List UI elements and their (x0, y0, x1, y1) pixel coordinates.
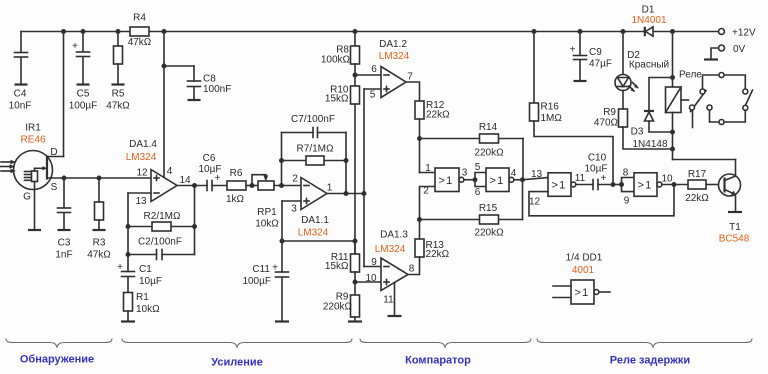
svg-text:R15: R15 (479, 203, 498, 214)
svg-text:13: 13 (531, 169, 543, 180)
svg-text:C4: C4 (14, 89, 27, 100)
svg-text:R1: R1 (136, 292, 149, 303)
svg-text:R3: R3 (93, 238, 106, 249)
svg-text:100nF: 100nF (203, 84, 231, 95)
svg-text:1: 1 (327, 183, 333, 194)
svg-text:R2/1MΩ: R2/1MΩ (144, 211, 181, 222)
svg-text:LM324: LM324 (126, 152, 157, 163)
svg-text:DA1.3: DA1.3 (380, 230, 408, 241)
svg-text:R14: R14 (479, 122, 498, 133)
svg-text:RE46: RE46 (20, 135, 45, 146)
svg-text:>1: >1 (575, 287, 590, 299)
svg-text:+12V: +12V (732, 28, 756, 39)
svg-text:C7/100nF: C7/100nF (291, 114, 335, 125)
svg-text:2: 2 (423, 186, 429, 197)
svg-text:Усиление: Усиление (211, 357, 263, 369)
svg-text:>1: >1 (638, 180, 653, 192)
svg-text:C8: C8 (203, 74, 216, 85)
svg-text:10nF: 10nF (9, 101, 32, 112)
svg-text:R7/1MΩ: R7/1MΩ (297, 144, 334, 155)
svg-text:13: 13 (135, 196, 147, 207)
svg-text:11: 11 (383, 295, 394, 306)
svg-text:9: 9 (624, 196, 630, 207)
svg-text:8: 8 (409, 264, 415, 275)
svg-text:12: 12 (136, 168, 148, 179)
svg-text:C2/100nF: C2/100nF (138, 237, 182, 248)
svg-text:>1: >1 (490, 175, 505, 187)
svg-text:DA1.2: DA1.2 (379, 39, 407, 50)
svg-text:S: S (51, 182, 58, 193)
svg-text:14: 14 (179, 175, 191, 186)
svg-text:220kΩ: 220kΩ (474, 148, 504, 159)
svg-text:100kΩ: 100kΩ (321, 55, 351, 66)
svg-text:C5: C5 (77, 89, 90, 100)
svg-text:3: 3 (462, 168, 468, 179)
svg-text:1/4 DD1: 1/4 DD1 (566, 253, 603, 264)
svg-text:47µF: 47µF (589, 59, 612, 70)
svg-text:10µF: 10µF (199, 164, 222, 175)
svg-text:8: 8 (623, 168, 629, 179)
svg-text:6: 6 (475, 187, 481, 198)
svg-text:R6: R6 (230, 168, 243, 179)
svg-text:220kΩ: 220kΩ (323, 302, 353, 313)
svg-text:R5: R5 (112, 89, 125, 100)
svg-text:Обнаружение: Обнаружение (20, 354, 94, 366)
svg-text:5: 5 (475, 162, 481, 173)
svg-text:22kΩ: 22kΩ (426, 249, 450, 260)
svg-text:C6: C6 (203, 153, 216, 164)
svg-text:C10: C10 (588, 153, 607, 164)
svg-text:R16: R16 (541, 102, 560, 113)
svg-text:D1: D1 (642, 5, 655, 16)
svg-text:10: 10 (661, 174, 673, 185)
svg-text:IR1: IR1 (25, 123, 41, 134)
svg-text:LM324: LM324 (298, 228, 329, 239)
svg-text:2: 2 (292, 174, 298, 185)
svg-text:C9: C9 (589, 47, 602, 58)
svg-text:10: 10 (365, 273, 377, 284)
svg-text:R4: R4 (133, 13, 146, 24)
svg-text:10µF: 10µF (139, 276, 162, 287)
svg-text:LM324: LM324 (375, 244, 406, 255)
svg-text:LM324: LM324 (379, 51, 410, 62)
svg-text:>1: >1 (439, 175, 454, 187)
svg-text:22kΩ: 22kΩ (685, 193, 709, 204)
svg-text:470Ω: 470Ω (594, 118, 619, 129)
svg-text:C1: C1 (139, 264, 152, 275)
svg-text:Компаратор: Компаратор (405, 355, 471, 367)
svg-text:47kΩ: 47kΩ (106, 101, 130, 112)
svg-text:4001: 4001 (572, 265, 595, 276)
svg-text:10kΩ: 10kΩ (255, 219, 279, 230)
svg-text:DA1.4: DA1.4 (129, 139, 157, 150)
svg-text:47kΩ: 47kΩ (128, 37, 152, 48)
svg-text:1N4001: 1N4001 (631, 15, 666, 26)
svg-text:C11: C11 (252, 264, 270, 275)
svg-text:R9: R9 (603, 107, 616, 118)
svg-text:T1: T1 (729, 222, 741, 233)
svg-text:7: 7 (407, 72, 413, 83)
svg-text:100µF: 100µF (69, 101, 98, 112)
svg-text:Реле: Реле (679, 70, 702, 81)
svg-text:+: + (72, 41, 78, 52)
svg-text:>1: >1 (552, 180, 567, 192)
svg-text:1MΩ: 1MΩ (541, 113, 563, 124)
svg-text:4: 4 (511, 168, 517, 179)
svg-text:1: 1 (425, 163, 431, 174)
svg-text:11: 11 (575, 173, 586, 184)
svg-text:C3: C3 (58, 238, 71, 249)
svg-text:+: + (570, 45, 576, 56)
svg-text:G: G (23, 192, 31, 203)
svg-text:9: 9 (371, 257, 377, 268)
svg-text:47kΩ: 47kΩ (87, 250, 111, 261)
svg-text:220kΩ: 220kΩ (474, 228, 504, 239)
svg-text:12: 12 (529, 197, 541, 208)
svg-text:RP1: RP1 (257, 207, 277, 218)
svg-text:R17: R17 (688, 169, 707, 180)
svg-text:D: D (50, 147, 57, 158)
svg-text:100µF: 100µF (242, 276, 271, 287)
svg-text:5: 5 (370, 90, 376, 101)
svg-text:15kΩ: 15kΩ (325, 261, 349, 272)
svg-text:10kΩ: 10kΩ (136, 304, 160, 315)
svg-text:0V: 0V (733, 44, 746, 55)
svg-text:Красный: Красный (629, 60, 669, 71)
svg-text:15kΩ: 15kΩ (325, 94, 349, 105)
svg-text:1kΩ: 1kΩ (226, 194, 245, 205)
svg-text:6: 6 (371, 64, 377, 75)
svg-text:1N4148: 1N4148 (632, 139, 667, 150)
svg-text:1nF: 1nF (55, 250, 72, 261)
svg-text:4: 4 (167, 166, 173, 177)
svg-text:3: 3 (291, 204, 297, 215)
svg-text:D3: D3 (631, 127, 644, 138)
svg-text:10µF: 10µF (585, 164, 608, 175)
svg-text:22kΩ: 22kΩ (426, 110, 450, 121)
svg-text:BC548: BC548 (719, 234, 750, 245)
svg-text:Реле задержки: Реле задержки (610, 355, 690, 367)
svg-text:+: + (601, 173, 607, 184)
svg-text:DA1.1: DA1.1 (301, 215, 329, 226)
